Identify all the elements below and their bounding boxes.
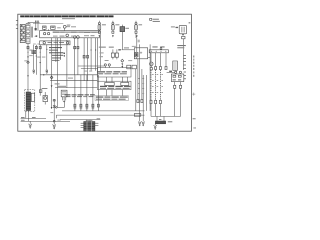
wire column B relay [32, 45, 36, 74]
connector boxes mid [127, 65, 137, 69]
washer relay box [40, 88, 47, 105]
mid columns from junction block [61, 38, 101, 88]
connector label bar 2 [97, 81, 131, 89]
arrow connector center [118, 47, 134, 50]
wire column C fuse [35, 45, 37, 75]
stub wires bar1 to bar2 [107, 77, 128, 82]
fuse main dark [35, 28, 37, 30]
switch drops [151, 53, 166, 67]
bus wire 2 [56, 115, 144, 120]
wire column E [46, 45, 48, 74]
wire mid horizontal 1 [40, 74, 97, 76]
ECU block bottom center [81, 120, 99, 132]
fuse label box AM1 [51, 26, 56, 29]
connector label bar 1 [97, 71, 127, 74]
node circle B+ [57, 25, 76, 29]
washer motor block M1 [26, 90, 42, 122]
wire code band above bus [65, 94, 95, 97]
noise suppressor column [50, 99, 64, 122]
bottom-left wire 1 [21, 117, 46, 118]
arrow in junction block [34, 35, 37, 37]
relay box right [167, 71, 184, 117]
long vertical column right-center 1 [138, 44, 141, 125]
wire column D fuse [39, 45, 41, 91]
ground symbol bottom left [29, 121, 32, 128]
battery terminal dots [28, 21, 63, 31]
long vertical column right-center 2 [134, 75, 145, 126]
vertical column right-center 3 [146, 44, 150, 111]
wire mid horizontal 2 [50, 80, 97, 82]
diamond connector [121, 59, 124, 68]
ground symbol right [154, 124, 157, 130]
border tick marks [16, 20, 18, 28]
label marks left columns [24, 50, 45, 62]
relay R1 dark box [120, 25, 129, 50]
stub wires bar2 to bar3 [107, 90, 123, 96]
lamp L3 [135, 21, 142, 38]
switch connectors [155, 67, 167, 70]
registration mark right margin [192, 93, 195, 96]
washer motor dashed box [25, 90, 35, 112]
fusible link block FL [20, 24, 33, 44]
indicator lamp [150, 62, 154, 70]
mid columns to bus [136, 59, 144, 111]
label marks mid-left [55, 78, 73, 85]
right margin labels [177, 45, 186, 79]
bus stub connectors [74, 75, 99, 111]
title bar text [20, 15, 113, 19]
fuse label box AM2 [43, 26, 47, 29]
shielded cable columns [150, 70, 163, 104]
wire to check connector [78, 66, 104, 72]
right page margin text vertical [193, 56, 194, 77]
page number bottom right [193, 118, 196, 128]
wire mid horizontal 3 [55, 86, 97, 88]
ground symbol suppressor [53, 122, 56, 129]
ground plate right [155, 116, 172, 123]
junction block row2 [33, 41, 70, 45]
bottom-left wire 2 [21, 120, 70, 122]
wire column F long [50, 38, 53, 109]
headlamp switch assembly [149, 46, 168, 52]
ignition switch top right [171, 25, 187, 70]
wire column G [55, 38, 57, 62]
border frame [18, 14, 192, 131]
rheostat [173, 61, 178, 70]
label cluster fuses [49, 47, 65, 61]
lamp L2 [112, 21, 120, 38]
bus wire 1 [62, 110, 145, 112]
diagnostic connector DLC [61, 90, 67, 102]
wire column A [27, 43, 30, 94]
center components pair [99, 47, 119, 61]
junction block row1 [40, 28, 101, 38]
wire column H to diode [57, 38, 59, 107]
legend note top right [150, 19, 191, 24]
right ground wiring [151, 104, 181, 117]
igniter box [128, 35, 150, 61]
connector label bar 1 box [97, 64, 131, 77]
lamp L1 [98, 21, 106, 38]
connector label bar 3 [95, 96, 129, 101]
